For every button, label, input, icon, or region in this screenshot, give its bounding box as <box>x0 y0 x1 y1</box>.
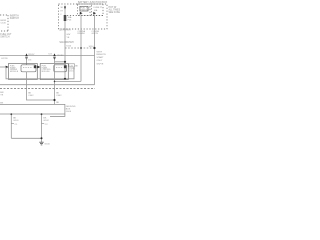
connector J1 (left edge dashed box) <box>0 15 8 31</box>
svg-text:DG: DG <box>28 59 31 61</box>
svg-text:S110 RD/WH: S110 RD/WH <box>59 41 73 44</box>
ground symbol GND <box>39 142 43 145</box>
junction dot J2 <box>53 99 55 101</box>
junction dot W15 <box>41 137 43 139</box>
svg-text:GN/YE: GN/YE <box>97 64 104 66</box>
feed arrow A2 on bus <box>53 53 56 56</box>
fuse box F2 (inner dashed box) <box>78 4 91 16</box>
arrow in F2 <box>80 12 83 15</box>
junction dot W14 <box>41 113 43 115</box>
junction dot W8 <box>64 78 66 80</box>
junction dot W4/W2 <box>80 47 82 49</box>
svg-text:HOT AT: HOT AT <box>109 6 118 9</box>
junction dot W12 <box>54 81 56 83</box>
compartment in G1 <box>50 114 65 116</box>
arrow A4 between modules <box>37 66 40 69</box>
fuse F1 body <box>64 15 67 21</box>
ground bus G1 box <box>0 104 65 114</box>
svg-text:MODULE: MODULE <box>42 71 51 73</box>
svg-text:S110: S110 <box>89 46 95 48</box>
bus wire W11 <box>0 84 95 86</box>
svg-text:G100: G100 <box>66 111 72 113</box>
link wire W6 <box>55 61 66 63</box>
svg-text:C442: C442 <box>56 95 62 97</box>
svg-text:C442: C442 <box>28 95 34 97</box>
junction box U1 (top dashed box) <box>59 4 108 29</box>
terminal T1 dark square <box>34 65 37 68</box>
svg-text:SWITCH: SWITCH <box>0 36 9 38</box>
svg-text:10A: 10A <box>94 9 98 12</box>
wire W3 from F3 <box>94 15 96 85</box>
wire W2 from F2 <box>80 15 82 82</box>
ground wire W13 <box>10 114 12 138</box>
svg-text:PWR RLY: PWR RLY <box>80 10 90 12</box>
svg-text:MODULE: MODULE <box>10 71 19 73</box>
divider in U1 <box>67 15 103 17</box>
svg-text:WITH: WITH <box>97 51 103 53</box>
svg-text:G102: G102 <box>43 120 49 122</box>
svg-text:FUSE 27: FUSE 27 <box>94 7 103 9</box>
wire W12 right corner <box>55 80 82 82</box>
svg-text:REMOTE: REMOTE <box>97 54 107 56</box>
junction dot W13 <box>10 113 12 115</box>
svg-text:G100: G100 <box>44 143 50 145</box>
fuse box F3 (inner dashed box) <box>92 4 104 16</box>
wire W10 bus drop through M2 <box>54 59 56 105</box>
svg-text:12 RD/WH: 12 RD/WH <box>59 28 71 31</box>
svg-text:SWITCH: SWITCH <box>10 18 19 20</box>
relay K1 label box <box>80 6 88 11</box>
svg-text:GN/YE: GN/YE <box>92 33 99 35</box>
svg-text:GY/YE: GY/YE <box>1 58 8 60</box>
svg-text:G101: G101 <box>13 120 19 122</box>
tick on W13 <box>11 123 14 125</box>
svg-text:GN/: GN/ <box>66 34 70 36</box>
svg-text:INERTIA: INERTIA <box>10 14 19 17</box>
wire W15 joining grounds <box>11 137 41 139</box>
connector box C3 right of M2 <box>69 64 75 67</box>
svg-text:START: START <box>97 56 105 59</box>
wire fuse F1 drop <box>64 6 66 79</box>
svg-text:ALL TIMES: ALL TIMES <box>109 8 121 11</box>
svg-text:PK/BK: PK/BK <box>57 55 64 57</box>
svg-text:RD/GY: RD/GY <box>28 54 35 56</box>
svg-text:BATTERY JUNCTION BOX: BATTERY JUNCTION BOX <box>78 1 108 4</box>
feed arrow A1 on bus <box>25 53 28 56</box>
contact row in M2a <box>56 67 63 69</box>
svg-text:RD/WH: RD/WH <box>78 33 86 35</box>
svg-text:S110: S110 <box>66 46 72 48</box>
relay symbol M2a (rounded box) <box>54 65 67 72</box>
svg-text:SEE FUSE: SEE FUSE <box>109 12 121 14</box>
module M2 box <box>40 64 68 80</box>
dashed wire W4 <box>65 47 95 49</box>
wire W7 from left edge <box>0 66 6 68</box>
module M1 box <box>9 64 38 80</box>
tick on W14 <box>42 123 45 125</box>
wire W9 from M1a down <box>27 72 55 100</box>
junction dot on W4 <box>93 47 95 49</box>
ground wire W14 <box>41 114 43 142</box>
arrow in F3 <box>93 12 96 15</box>
svg-text:DG: DG <box>49 53 53 55</box>
contact row in M1a <box>23 67 32 69</box>
svg-text:C145: C145 <box>1 22 7 24</box>
terminal T2 dark square <box>64 65 67 68</box>
bus wire W5 <box>0 55 95 57</box>
wire W8 branch down <box>6 67 74 79</box>
harness dashed line H1 <box>0 88 95 90</box>
svg-text:ONLY: ONLY <box>97 60 103 62</box>
junction dot W6 <box>64 61 66 63</box>
input arrow A3 <box>6 66 9 69</box>
relay symbol M1a (rounded box) <box>21 65 36 72</box>
svg-text:30A: 30A <box>68 16 72 19</box>
wire W1a feed from bus to M1a <box>26 58 28 65</box>
arrow on F1 wire <box>64 7 66 10</box>
